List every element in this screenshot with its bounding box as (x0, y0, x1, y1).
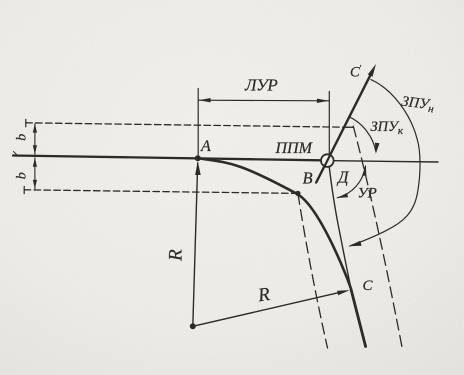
dimension ЛУР: right extension line (328, 92, 330, 155)
dimension b lower: double arrow (34, 158, 36, 189)
dimension ЛУР: dimension line (198, 99, 329, 102)
node: turn centre dot (190, 323, 196, 329)
flown path: new track after C (thick) (351, 290, 365, 347)
arrowhead УР bottom (337, 193, 348, 198)
corridor dashed lower boundary (24, 190, 298, 194)
arrowhead ЗПУн (348, 241, 361, 247)
dimension ЛУР: right arrowhead (317, 99, 329, 103)
dimension ЛУР: left arrowhead (199, 98, 211, 102)
wire: old track line (left thick segment to A and ППМ) (13, 156, 321, 161)
svg-text:Д: Д (336, 168, 350, 187)
svg-text:b: b (15, 134, 30, 141)
corridor dashed boundary parallel to new track (right side) (353, 126, 402, 347)
dimension ЛУР: left extension line (197, 89, 199, 156)
tick at left end of upper dashed (25, 119, 27, 127)
arrowhead ЗПУк (375, 143, 380, 154)
svg-text:ЛУР: ЛУР (244, 76, 277, 95)
tick at start of old track (14, 152, 17, 155)
angle arc УР (turn angle) (337, 166, 365, 198)
angle arc ЗПУк (349, 117, 376, 152)
svg-text:R: R (166, 249, 187, 262)
corridor dashed boundary parallel to new track (left side) (298, 193, 328, 348)
wire: dash at corridor corner (346, 126, 354, 128)
corridor dashed upper boundary (26, 123, 353, 128)
arrowhead up at A (195, 161, 201, 175)
wire: new track direction line B through Д to C' (316, 70, 373, 182)
radius R line from centre to C (193, 293, 339, 327)
flown path: turn arc from A to C (198, 158, 351, 290)
node A dot (195, 155, 201, 161)
node: dot at corridor corner on turn curve (295, 191, 300, 196)
svg-text:ППМ: ППМ (275, 140, 314, 157)
svg-text:С: С (363, 278, 374, 294)
tick at left end of lower dashed (23, 186, 25, 193)
arrowhead УР top (362, 165, 366, 176)
svg-text:В: В (303, 169, 313, 188)
angle arc ЗПУн (large) (350, 80, 420, 246)
svg-text:b: b (14, 172, 29, 179)
wire: C' line across circle (324, 154, 330, 167)
radius R vertical line from turn centre up to A (193, 163, 198, 326)
arrowhead at C' (368, 64, 376, 77)
node: ППМ circle (waypoint Д) (321, 154, 334, 167)
wire: old track extension right of ППМ (334, 161, 438, 162)
svg-text:А: А (200, 138, 211, 155)
dimension b upper: double arrow (34, 124, 36, 155)
wire: new track thin segment Д to C (329, 167, 352, 293)
arrowhead at C end of radius (337, 290, 350, 295)
svg-text:УР: УР (358, 186, 377, 202)
